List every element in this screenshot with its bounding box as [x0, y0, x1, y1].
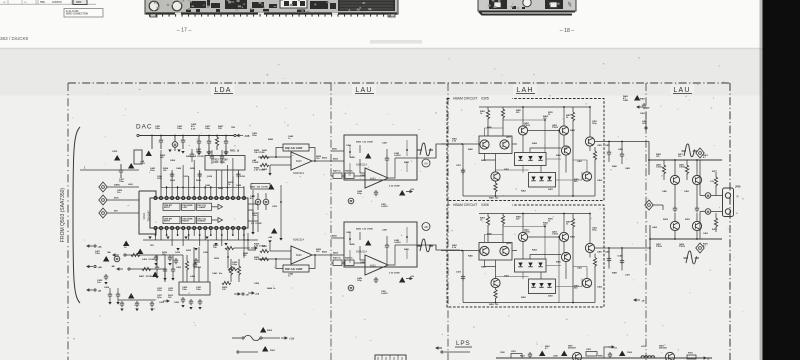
HBAM 0306 dual transistor box	[479, 243, 512, 261]
svg-text:HBAM CIRCUIT 0306: HBAM CIRCUIT 0306	[453, 203, 489, 207]
LPS inductor coil	[641, 356, 655, 358]
op-amp DA03-2 input wires	[258, 251, 291, 259]
input connector diamond BCK	[99, 195, 107, 205]
decoder label box one bit input right	[163, 216, 180, 223]
svg-text:C418: C418	[175, 251, 181, 254]
wire arrow -4A into lower rail	[124, 254, 126, 256]
HBAM 0305 transistor Q4	[559, 126, 568, 135]
LAU stage DA05-1 below components	[374, 190, 378, 196]
HBAM 0305 transistor Q6	[491, 172, 500, 181]
HBAM 0305 transistor Q5	[561, 146, 570, 155]
ground marks under top bus parts	[197, 150, 202, 155]
PCB left mounting hole 1	[149, 1, 159, 11]
output coupling electrolytic upper	[705, 193, 711, 199]
extra dmarks below DA01	[176, 248, 179, 251]
second deck caps under top bus	[190, 152, 194, 158]
svg-text:F801: F801	[270, 350, 276, 352]
svg-text:C426: C426	[174, 301, 180, 304]
decoder label box decoder right	[182, 216, 196, 223]
svg-text:+4A: +4A	[98, 246, 102, 249]
HBAM 0306 transistor Q7	[585, 243, 594, 252]
svg-text:L409: L409	[190, 275, 196, 278]
HBAM 0306 resistor R3v	[571, 219, 574, 229]
HBAM 0305 bottom rail	[463, 144, 595, 196]
svg-text:-1B: -1B	[641, 301, 645, 303]
resistor R415 horizontal	[225, 246, 234, 249]
op-amp DA03-2 noninverting ground leg	[269, 243, 271, 251]
waveform symbol DA05-2	[418, 239, 434, 252]
svg-text:R429 1k: R429 1k	[345, 257, 353, 260]
svg-text:8A03: 8A03	[370, 178, 376, 181]
resistor R479 vertical to jack	[714, 218, 717, 228]
junction dots on DA01 top wires	[166, 187, 229, 189]
PCB right hole	[523, 0, 531, 7]
DA01 bottom pin wires going down	[156, 230, 244, 247]
section divider LAH/LAU	[645, 83, 647, 360]
lower output bus	[650, 238, 722, 240]
HBAM 0306 diode array box B	[529, 279, 556, 294]
signal marker circle DA05-1	[422, 159, 430, 167]
svg-text:AA: AA	[424, 162, 428, 166]
HBAM 0306 input wire	[441, 250, 479, 252]
vertical resistors right of DA01	[229, 266, 232, 276]
svg-text:-4B: -4B	[98, 290, 102, 293]
svg-text:FROM Q503 (SAA7350): FROM Q503 (SAA7350)	[60, 188, 66, 243]
LAU stage DA05-1 inner wiring	[360, 145, 417, 178]
PCB layout photo right (solder side)	[478, 0, 576, 15]
capacitor left column 2	[104, 274, 108, 280]
HBAM circuit 0305 dashed box	[447, 99, 604, 201]
electrolytic left column	[114, 256, 120, 262]
svg-text:+1B: +1B	[410, 189, 414, 191]
svg-text:BCK: BCK	[114, 198, 119, 200]
title block cell box	[38, 0, 72, 4]
schematic frame right edge	[729, 83, 731, 360]
HBAM 0306 lower-left cap	[461, 275, 465, 281]
svg-text:R429 1k: R429 1k	[345, 170, 353, 173]
wire HBAM upper output to bus	[648, 142, 650, 176]
capacitor C427	[193, 262, 197, 268]
svg-text:LAH: LAH	[516, 87, 533, 94]
supply bus top of DAC	[139, 135, 234, 137]
svg-text:DATA: DATA	[114, 184, 120, 187]
wire BCK to DAC	[107, 199, 139, 201]
op-amp zone mid verticals	[253, 185, 281, 238]
wire stub into LPS from left	[444, 351, 470, 353]
svg-text:NJM2114: NJM2114	[356, 163, 367, 167]
svg-text:-1B: -1B	[245, 295, 249, 297]
warn triangle left column 2	[103, 256, 109, 262]
capacitor C407	[197, 139, 201, 145]
PCB right dark module 2	[545, 0, 563, 9]
HBAM 0305 resistor R2v	[501, 109, 504, 119]
wire DATA to DAC	[107, 186, 139, 188]
svg-text:8A03: 8A03	[296, 160, 302, 163]
svg-text:R459 100: R459 100	[489, 303, 499, 306]
LPS transistor D801	[572, 352, 581, 360]
HBAM 0305 right side cap 2	[620, 152, 624, 158]
svg-text:3.3k 1/10W: 3.3k 1/10W	[389, 186, 400, 188]
svg-text:DA01: DA01	[142, 212, 146, 219]
LAU stage DA05-2 input resistors	[333, 260, 342, 266]
HBAM 0305 output wire right	[595, 141, 649, 143]
svg-text:NJM2114: NJM2114	[356, 250, 367, 254]
HBAM 0306 right side cap	[607, 257, 611, 263]
LAU stage DA05-1 input wires	[331, 151, 365, 176]
signal marker circle DA05-2	[422, 223, 430, 231]
svg-text:R421: R421	[262, 245, 268, 248]
svg-text:C414: C414	[207, 175, 213, 178]
voltage triangle R463 top	[634, 95, 640, 101]
LPS cap C821	[511, 354, 522, 359]
svg-text:TDA1547: TDA1547	[147, 210, 151, 222]
svg-text:-C4B: -C4B	[244, 135, 250, 138]
decoder label box dac left hand	[197, 203, 212, 210]
wire control line into DAC	[80, 169, 139, 171]
svg-text:AB: AB	[424, 225, 428, 229]
HBAM circuit 0306 dashed box	[447, 205, 604, 307]
resistor R403 box	[251, 184, 270, 190]
svg-text:R422: R422	[262, 168, 268, 171]
svg-text:WS: WS	[114, 211, 118, 213]
HBAM 0305 transistor Q7	[585, 137, 594, 146]
waveform symbol upper output	[682, 144, 698, 157]
svg-text:C452: C452	[196, 266, 202, 269]
PCB right dark module 1	[489, 0, 507, 9]
LAU stage DA05-1 cap C445	[385, 156, 389, 162]
svg-text:C446: C446	[205, 184, 211, 187]
svg-text:R404 100 1/10W: R404 100 1/10W	[186, 155, 205, 158]
waveform symbol lower output	[684, 251, 700, 264]
svg-text:R407 1/10W: R407 1/10W	[139, 275, 153, 278]
PCB left dark components	[186, 0, 336, 12]
svg-text:R403 120 1/10W: R403 120 1/10W	[250, 186, 269, 189]
wire arrow -4B into second rail	[128, 268, 130, 270]
svg-text:– 17 –: – 17 –	[177, 28, 192, 34]
capacitor C411	[224, 139, 228, 145]
svg-text:DAC ICQL-HAND: DAC ICQL-HAND	[198, 204, 207, 209]
op-amp DA03-2 feedback resistor box	[283, 265, 309, 272]
LAU stage DA05-2 below components	[374, 277, 378, 283]
schematic frame left edge	[67, 83, 69, 360]
svg-text:C458: C458	[254, 282, 260, 285]
upper output bus	[649, 159, 722, 161]
diamond marker upper output	[696, 148, 704, 158]
transformer box bottom	[375, 355, 406, 360]
LPS warn triangle 3	[619, 351, 625, 357]
capacitor C409	[207, 139, 211, 145]
svg-text:R411 1k: R411 1k	[230, 150, 240, 153]
input connector diamond WS	[99, 208, 107, 218]
svg-text:NJM2114: NJM2114	[293, 238, 304, 242]
bottom caps row wire	[118, 299, 155, 301]
HBAM 0306 resistor R4v	[593, 258, 596, 268]
HBAM 0306 transistor Q5	[561, 252, 570, 261]
wires right of DA01 going down	[244, 228, 256, 258]
LAU stage DA05-2 outer box	[344, 222, 417, 267]
diamond marker mid left	[645, 200, 653, 210]
LPS left stub	[436, 347, 442, 349]
HBAM 0306 resistor R2v	[501, 216, 504, 226]
section label LDA	[211, 85, 235, 95]
HBAM circuit 0305 label	[450, 95, 512, 101]
LPS arrow +5	[700, 357, 706, 359]
op-amp DA03-2 triangle	[291, 246, 312, 264]
svg-text:C461: C461	[640, 112, 646, 115]
LAU stage DA05-1 outer box	[344, 135, 417, 180]
svg-text:R442: R442	[268, 138, 274, 141]
svg-text:JP08: JP08	[735, 187, 741, 189]
LAU stage DA05-1 opamp triangle	[365, 168, 388, 188]
PCB left large IC mass	[338, 0, 395, 11]
page split line	[0, 48, 763, 50]
svg-text:383 / DiUCK9: 383 / DiUCK9	[0, 36, 29, 41]
svg-text:– 18 –: – 18 –	[560, 28, 575, 34]
svg-text:C420: C420	[203, 251, 209, 254]
LPS small caps on rail	[528, 352, 532, 358]
HBAM 0306 extra junction dots	[522, 213, 524, 215]
svg-text:8A05: 8A05	[322, 251, 328, 254]
capacitor C423	[168, 255, 172, 261]
svg-text:+4B: +4B	[98, 266, 102, 269]
resistor R419	[222, 281, 231, 284]
HBAM 0305 resistor R1v	[486, 110, 489, 120]
arrow +5M	[637, 106, 643, 108]
HBAM 0306 right side cap 2	[620, 259, 624, 265]
svg-text:NJM8050: NJM8050	[52, 2, 63, 4]
PCB left mounting hole 2	[172, 1, 182, 11]
svg-text:8A06: 8A06	[333, 252, 339, 255]
input connector diamond DATA	[99, 182, 107, 192]
svg-text:C416: C416	[240, 175, 246, 178]
note box wire connection	[64, 9, 103, 18]
HBAM 0305 extra junction dots	[522, 106, 524, 108]
svg-text:-4B: -4B	[111, 265, 115, 268]
svg-text:R420: R420	[262, 149, 268, 152]
mid coupling caps between transistors	[675, 185, 697, 222]
capacitor C403	[181, 138, 185, 144]
resistor R465 vertical	[662, 165, 665, 175]
PCB left white connector block	[280, 0, 307, 8]
wire WS to DAC	[107, 212, 139, 214]
arrow -1B with circle	[242, 293, 244, 295]
svg-text:LPS: LPS	[456, 340, 470, 347]
section label LAU	[670, 85, 694, 95]
svg-text:C454: C454	[104, 286, 110, 289]
arrow +5A right	[248, 292, 254, 294]
capacitor C461 top	[642, 103, 646, 109]
ground marks under DA01 pins	[148, 237, 151, 240]
op-amp DA03-1 feedback resistor box	[283, 144, 309, 151]
op-amp DA03-1 output wire	[312, 160, 344, 162]
JP08 pin L	[725, 209, 730, 214]
svg-text:8A03: 8A03	[370, 265, 376, 268]
wire arrow -C4B	[237, 135, 243, 137]
output transistor Q455	[670, 175, 679, 184]
HBAM 0305 wires mid	[485, 107, 591, 173]
ground rail under DA01	[143, 239, 258, 241]
HBAM 0305 transistor Q8	[582, 172, 591, 181]
HBAM circuit 0306 label	[450, 202, 512, 208]
fuse F801 triangle	[262, 346, 268, 352]
HBAM 0306 output wire right	[595, 247, 649, 249]
HBAM 0305 transistor Q3	[518, 126, 527, 135]
voltage triangle on second rail	[152, 272, 158, 278]
svg-text:LAU: LAU	[355, 87, 372, 94]
junction dot mid	[227, 256, 229, 258]
connector JP08	[723, 188, 734, 217]
arrow +11V	[281, 337, 287, 339]
scanner gap band	[0, 49, 763, 96]
svg-text:R421 12k 1/10W: R421 12k 1/10W	[285, 268, 303, 271]
svg-text:R418: R418	[214, 257, 220, 260]
LAU stage DA05-2 output wire	[417, 245, 460, 250]
left column extra caps	[108, 292, 112, 298]
HBAM 0306 transistor Q3	[518, 232, 527, 241]
svg-text:R408: R408	[170, 179, 176, 182]
op-amp DA03-1 input wires	[258, 157, 291, 165]
wire to op-amp supply arrow	[234, 247, 250, 249]
wire HBAM lower output to bus	[649, 225, 651, 265]
filter block box below DA01	[179, 282, 210, 295]
HBAM 0306 transistor Q8	[582, 278, 591, 287]
svg-text:C412: C412	[183, 175, 189, 178]
capacitors below filter block	[181, 297, 185, 303]
schematic frame top edge	[68, 82, 730, 84]
svg-text:TNB: TNB	[40, 2, 45, 4]
resistor R405 on rail	[131, 253, 140, 256]
voltage triangle lower mid	[271, 228, 277, 234]
resistor R467 vertical	[685, 165, 688, 175]
capacitor C401	[159, 138, 163, 144]
HBAM 0306 top rail	[479, 213, 590, 215]
resistor R401	[215, 137, 218, 147]
svg-text:NJM2114: NJM2114	[293, 171, 304, 175]
LPS arrow +11	[604, 347, 612, 358]
resistor R417 horizontal	[228, 267, 237, 270]
PCB right speckle texture	[488, 0, 572, 9]
DA01 top pin wires going up	[161, 170, 244, 197]
svg-text:C422: C422	[159, 301, 165, 304]
decoder label box dac right hand	[197, 216, 212, 223]
arrow -4C bottom	[163, 300, 169, 302]
svg-text:LBO: LBO	[76, 1, 81, 4]
svg-text:LAU: LAU	[673, 87, 690, 94]
svg-text:C432: C432	[272, 205, 278, 208]
scan noise specks	[72, 57, 744, 353]
diamond marker lower output	[696, 243, 704, 253]
extra resistors op-amp inputs	[260, 155, 269, 158]
HBAM 0305 diode array box A	[515, 153, 547, 166]
svg-text:+5M: +5M	[645, 108, 649, 110]
title block table rule top left	[0, 3, 96, 5]
buffer triangle left channel	[212, 206, 218, 208]
section label LAU	[352, 85, 376, 95]
HBAM 0305 transistor Q2	[500, 140, 509, 149]
svg-text:HBAM CIRCUIT 0305: HBAM CIRCUIT 0305	[453, 97, 489, 101]
svg-text:C415: C415	[112, 150, 118, 153]
op-amp DA03-1 feedback wires	[276, 148, 315, 162]
svg-text:C450: C450	[176, 266, 182, 269]
svg-text:LDA: LDA	[214, 87, 231, 94]
svg-text:+4B: +4B	[268, 236, 272, 239]
LPS cap C823	[586, 352, 597, 357]
section label LAH	[513, 85, 537, 95]
svg-text:R436: R436	[190, 167, 196, 170]
HBAM 0306 transistor Q2	[500, 246, 509, 255]
svg-text:C448: C448	[236, 184, 242, 187]
LAU stage DA05-2 cap C445	[385, 243, 389, 249]
resistor R409 vertical	[185, 261, 188, 271]
LAU box inner extra wires lower	[350, 227, 407, 263]
HBAM 0306 transistor Q1	[480, 246, 489, 255]
cable brace from Q503	[73, 127, 80, 303]
op-amp DA03-1 noninverting ground leg	[269, 165, 271, 173]
HBAM 0305 inner mesh wires	[485, 120, 588, 196]
extended DA01 top pin wires	[161, 150, 233, 188]
HBAM 0306 resistor R1v	[486, 217, 489, 227]
svg-text:L407100u: L407100u	[95, 250, 101, 255]
electrolytic pair C419	[255, 199, 261, 205]
fuse F802 triangle	[260, 327, 266, 333]
HBAM 0305 lower-left cap	[461, 168, 465, 174]
LPS warn triangle 1	[539, 351, 545, 357]
HBAM 0305 resistor R5v	[494, 183, 497, 193]
capacitor cluster left of DAC	[119, 168, 123, 174]
LAU stage DA05-2 input wires	[331, 238, 365, 263]
svg-text:L402: L402	[128, 183, 134, 186]
wires HBAM to LAU2 lower extras	[609, 248, 622, 264]
DA01 right side wires to IV stage	[244, 188, 258, 234]
PCB layout photo left (component side)	[145, 0, 398, 17]
wire bus drop left	[151, 136, 153, 150]
output transistor Q458	[692, 221, 701, 230]
left column arrows +4A	[94, 245, 96, 247]
HBAM 0305 right side cap	[607, 150, 611, 156]
HBAM 0305 resistor R4v	[593, 151, 596, 161]
vertical wires below DA01 middle	[183, 240, 208, 282]
svg-text:R427 1k: R427 1k	[333, 257, 341, 260]
HBAM 0305 resistor R3v	[571, 112, 574, 122]
components left of DAC upper	[114, 155, 120, 161]
svg-text:C444: C444	[176, 167, 182, 170]
decoder label box decoder left	[182, 203, 196, 210]
svg-text:+1B: +1B	[410, 276, 414, 278]
HBAM 0305 transistor Q1	[480, 140, 489, 149]
svg-text:+11V: +11V	[289, 339, 295, 341]
voltage triangle on rail	[137, 249, 143, 255]
extra caps above DA01	[170, 172, 174, 178]
svg-text:+5A: +5A	[255, 293, 259, 296]
svg-text:3.3k 1/10W: 3.3k 1/10W	[389, 273, 400, 275]
waveform symbol DA05-1	[418, 143, 434, 156]
svg-text:R425 3.3k 1/10W: R425 3.3k 1/10W	[356, 141, 373, 144]
HBAM 0306 inner mesh wires	[485, 227, 588, 303]
second rail wire	[130, 269, 165, 282]
DA01 top pin pads	[154, 197, 246, 200]
HBAM 0306 transistor Q6	[491, 278, 500, 287]
resistor R407 on second rail	[142, 267, 151, 270]
resistor R477 vertical to jack	[714, 177, 717, 187]
HBAM 0305 input wire	[441, 143, 479, 145]
LAU stage DA05-1 input resistors	[333, 173, 342, 179]
wire row above DA01	[161, 187, 244, 189]
HBAM 0305 dual transistor box	[479, 136, 512, 154]
HBAM 0306 bottom rail	[463, 251, 595, 303]
svg-text:R421 12k 1/10W: R421 12k 1/10W	[285, 147, 303, 150]
fuse F802 symbol	[232, 337, 241, 339]
DA01 bottom pin pads	[154, 227, 246, 230]
